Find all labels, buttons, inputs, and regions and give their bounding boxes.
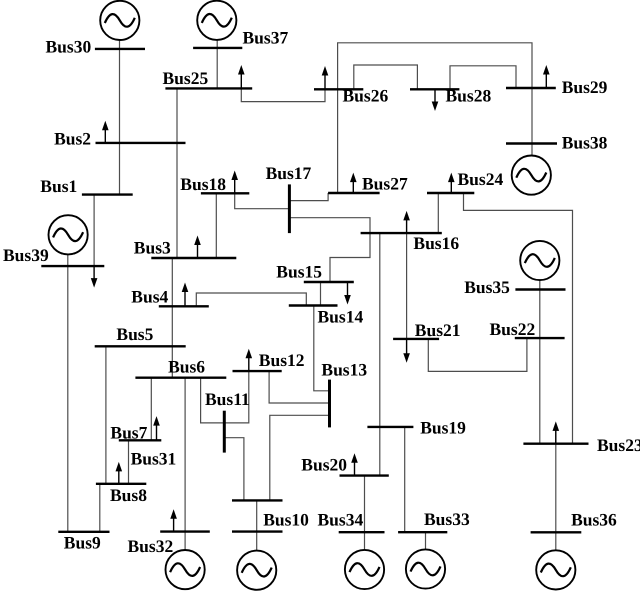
svg-text:Bus11: Bus11	[205, 389, 250, 409]
generator G35	[520, 241, 559, 280]
bus Bus15 bar	[304, 281, 354, 283]
svg-text:Bus36: Bus36	[571, 510, 617, 530]
svg-text:Bus19: Bus19	[420, 418, 466, 438]
bus Bus20 bar	[340, 474, 389, 476]
wire G37-Bus37-Bus25	[216, 40, 218, 89]
wire Bus5-Bus8	[105, 346, 107, 484]
wire G35-Bus35-Bus22-Bus23	[539, 280, 541, 444]
wire Bus26-Bus27	[337, 89, 339, 193]
bus Bus28 bar	[410, 88, 459, 90]
wire Bus16-Bus24	[437, 193, 439, 233]
wire Bus20-Bus34-G34	[364, 476, 366, 551]
svg-text:Bus3: Bus3	[134, 238, 171, 258]
generator G37	[197, 1, 236, 40]
bus Bus2 bar	[96, 142, 186, 144]
bus Bus12 bar	[233, 370, 282, 372]
wire Bus15-Bus14	[320, 282, 322, 306]
svg-text:Bus18: Bus18	[180, 174, 226, 194]
svg-text:Bus22: Bus22	[490, 319, 536, 339]
generator G36	[536, 550, 575, 589]
svg-text:Bus15: Bus15	[276, 261, 322, 281]
svg-text:Bus5: Bus5	[116, 324, 153, 344]
bus Bus26 bar	[314, 88, 363, 90]
bus Bus10 bar	[232, 499, 283, 501]
wire Bus8-Bus9	[99, 484, 101, 532]
svg-text:Bus30: Bus30	[46, 37, 92, 57]
load arrow Bus29	[543, 65, 550, 88]
load arrow Bus27	[350, 173, 357, 193]
wire Bus28-Bus29	[450, 66, 516, 90]
wire G39-Bus39-Bus9	[67, 255, 69, 532]
load arrow Bus24	[448, 173, 455, 193]
wire Bus14-Bus13	[314, 306, 330, 391]
svg-text:Bus6: Bus6	[168, 357, 205, 377]
wire Bus21-Bus22	[428, 338, 527, 371]
bus Bus39 bar	[41, 265, 104, 267]
bus Bus19 bar	[367, 426, 413, 428]
bus Bus16 bar	[361, 232, 442, 234]
svg-text:Bus24: Bus24	[458, 169, 504, 189]
bus Bus7 bar	[119, 439, 162, 441]
wire Bus10-G10	[256, 500, 258, 551]
svg-text:Bus33: Bus33	[424, 509, 470, 529]
load arrow Bus26	[322, 66, 329, 89]
load arrow Bus15	[344, 282, 351, 305]
load arrow Bus28	[432, 89, 439, 111]
wire Bus6-Bus11-Bus12	[201, 371, 249, 423]
load arrow Bus8	[116, 462, 123, 484]
svg-text:Bus35: Bus35	[464, 277, 510, 297]
bus Bus35 bar	[515, 288, 565, 290]
svg-text:Bus39: Bus39	[3, 245, 49, 265]
generator G38	[512, 156, 551, 195]
wire Bus17-Bus16-Bus15	[289, 218, 370, 282]
svg-text:Bus2: Bus2	[54, 129, 91, 149]
load arrow Bus2	[102, 121, 109, 143]
svg-text:Bus7: Bus7	[110, 423, 147, 443]
bus Bus34 bar	[339, 531, 385, 533]
bus Bus29 bar	[506, 87, 556, 89]
load arrow Bus16	[403, 211, 410, 233]
svg-text:Bus34: Bus34	[318, 510, 364, 530]
wire Bus12-Bus13	[269, 371, 329, 403]
wire Bus7-Bus8	[128, 440, 130, 484]
bus Bus13 bar (vertical)	[328, 380, 331, 428]
bus Bus11 bar (vertical)	[223, 411, 226, 453]
svg-text:Bus4: Bus4	[131, 286, 168, 306]
wire Bus17-Bus27	[289, 193, 328, 201]
bus Bus32 bar	[160, 530, 210, 532]
wire Bus23-Bus36-G36	[555, 428, 557, 551]
generator G10	[237, 551, 276, 590]
bus Bus36 bar	[531, 531, 582, 533]
svg-text:Bus29: Bus29	[562, 77, 608, 97]
bus Bus14 bar	[289, 304, 338, 306]
svg-text:Bus28: Bus28	[446, 85, 492, 105]
bus Bus33 bar	[398, 531, 447, 533]
bus Bus9 bar	[58, 531, 109, 533]
bus Bus4 bar	[159, 305, 209, 307]
bus Bus37 bar	[193, 47, 242, 49]
load arrow Bus3	[194, 236, 201, 259]
wire Bus26-Bus28	[354, 65, 418, 89]
svg-text:Bus20: Bus20	[301, 455, 347, 475]
svg-text:Bus26: Bus26	[343, 85, 389, 105]
wire Bus26-Bus29 top link	[338, 43, 532, 90]
load arrow Bus32	[170, 509, 177, 531]
bus Bus22 bar	[515, 337, 565, 339]
wire G33 stub	[425, 532, 427, 550]
svg-text:Bus9: Bus9	[64, 533, 101, 553]
wire Bus1-Bus39	[93, 195, 95, 267]
wire Bus19-Bus33-G33	[404, 427, 406, 532]
load arrow Bus39	[91, 266, 98, 288]
svg-text:Bus23: Bus23	[597, 435, 640, 455]
bus Bus23 bar	[523, 443, 588, 445]
svg-text:Bus38: Bus38	[562, 133, 608, 153]
svg-text:Bus16: Bus16	[413, 233, 459, 253]
wire Bus3-Bus18	[215, 193, 217, 258]
bus Bus17 bar (vertical)	[288, 184, 291, 233]
load arrow Bus12	[246, 349, 253, 371]
load arrow Bus20	[351, 453, 358, 475]
svg-text:Bus25: Bus25	[163, 68, 209, 88]
svg-text:Bus12: Bus12	[259, 350, 305, 370]
load arrow Bus4	[182, 283, 189, 307]
load arrow Bus25	[238, 65, 245, 88]
wire Bus29-Bus38-G38	[531, 88, 533, 156]
generator G30	[100, 1, 139, 40]
wire Bus4-Bus14	[196, 293, 306, 306]
generator G32	[166, 550, 205, 589]
wire Bus13-Bus10	[270, 415, 330, 500]
svg-text:Bus10: Bus10	[263, 510, 309, 530]
bus Bus27 bar	[328, 192, 380, 194]
load arrow Bus7	[153, 416, 160, 440]
bus Bus38 bar	[506, 142, 557, 144]
wire Bus16-Bus19-Bus20	[379, 233, 381, 476]
svg-text:Bus21: Bus21	[415, 320, 461, 340]
bus Bus1 bar	[82, 193, 133, 195]
svg-text:Bus31: Bus31	[131, 449, 177, 469]
bus Bus5 bar	[95, 345, 186, 347]
svg-text:Bus37: Bus37	[243, 28, 289, 48]
svg-text:Bus14: Bus14	[318, 306, 364, 326]
wire Bus18-Bus17	[235, 193, 290, 208]
wire Bus25-Bus26	[241, 88, 325, 101]
bus Bus30 bar	[95, 48, 145, 50]
bus Bus24 bar	[427, 192, 474, 194]
bus Bus6 bar	[135, 377, 226, 379]
bus Bus21 bar	[393, 338, 439, 340]
wire Bus6-Bus32-G32	[184, 378, 186, 551]
bus Bus8 bar	[96, 483, 146, 485]
generator G33	[406, 549, 445, 588]
wire Bus6-Bus7	[150, 378, 152, 441]
wire Bus3-Bus4-Bus5-Bus6	[171, 258, 173, 378]
svg-text:Bus8: Bus8	[110, 485, 147, 505]
svg-text:Bus17: Bus17	[266, 163, 312, 183]
wire Bus11-Bus10	[224, 438, 244, 501]
wire Bus16-Bus21	[406, 233, 408, 339]
bus Bus10 generator bar	[232, 530, 283, 532]
generator G39	[49, 215, 88, 254]
bus Bus18 bar	[201, 192, 249, 194]
svg-text:Bus1: Bus1	[40, 176, 77, 196]
svg-text:Bus27: Bus27	[362, 174, 408, 194]
bus Bus3 bar	[151, 257, 236, 259]
load arrow Bus21	[403, 339, 410, 363]
load arrow Bus18	[231, 171, 238, 194]
svg-text:Bus13: Bus13	[321, 360, 367, 380]
wire Bus24-Bus23	[464, 193, 573, 444]
generator G34	[345, 550, 384, 589]
svg-text:Bus32: Bus32	[128, 536, 174, 556]
wire G30-Bus30-Bus2-Bus1	[119, 40, 121, 195]
load arrow Bus23	[553, 421, 560, 443]
bus Bus25 bar	[165, 87, 252, 89]
wire Bus25-Bus2-Bus3	[176, 88, 178, 258]
